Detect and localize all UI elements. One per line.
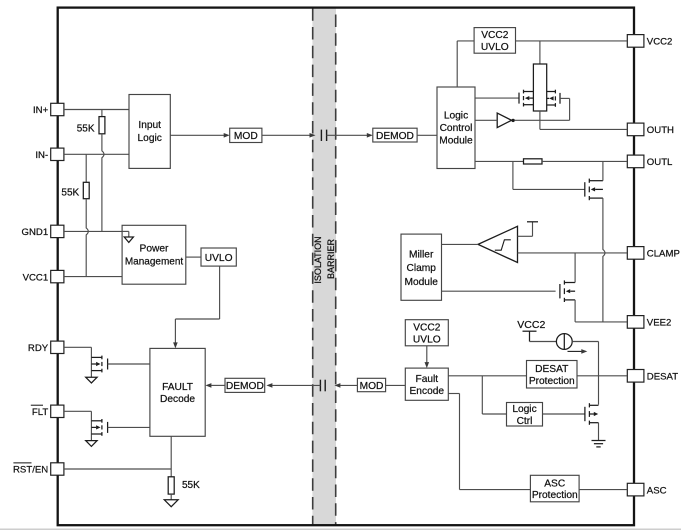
current source direction arrow — [568, 350, 584, 352]
wire VCC2 UVLO to Logic Control Module — [457, 40, 474, 42]
wire IN- to Input Logic — [64, 153, 129, 155]
wire Q5 source to ground — [598, 423, 600, 441]
pin IN+ — [51, 103, 64, 115]
svg-text:Input: Input — [138, 120, 161, 131]
svg-text:55K: 55K — [77, 124, 95, 135]
svg-text:DESAT: DESAT — [535, 364, 568, 375]
ground G3 — [164, 500, 178, 507]
junction dot buffer output — [511, 119, 514, 122]
svg-text:MOD: MOD — [360, 381, 384, 392]
transistor Q1 gate wire — [475, 97, 519, 99]
wire R3 to ground — [170, 494, 172, 500]
resistor R3 55K — [168, 477, 174, 494]
wire FAULT Decode bottom to R3 — [170, 436, 172, 477]
wire Fault Encode to ASC Protection — [448, 393, 459, 395]
wire Q6 gate to FAULT Decode — [108, 363, 150, 365]
wire current source to DESAT transistor drain — [572, 341, 598, 343]
wire Q4 drain to CLAMP line — [574, 253, 576, 283]
pin RDY — [51, 341, 64, 353]
wire DEMOD2 to FAULT Decode — [211, 384, 225, 386]
wire Input Logic to MOD — [170, 134, 224, 136]
arrow at isolation barrier top path — [310, 133, 316, 138]
pin CLAMP — [627, 247, 644, 260]
svg-text:BARRIER: BARRIER — [326, 238, 336, 279]
pin OUTL — [627, 155, 644, 168]
svg-text:ASC: ASC — [647, 485, 667, 496]
wire Miller Clamp Module to Q4 gate — [442, 290, 556, 292]
block UVLO — [201, 248, 236, 266]
page artifact line bottom — [0, 528, 681, 530]
block DEMOD — [373, 128, 417, 142]
svg-text:VCC2: VCC2 — [481, 30, 509, 41]
wire Power Management to UVLO — [186, 256, 201, 258]
wire ASC Protection to pin ASC — [579, 489, 627, 491]
transistor Q2 gate wire — [560, 97, 570, 99]
transistor Q5 — [584, 407, 586, 421]
transistor Q6 — [107, 359, 109, 370]
svg-text:ISOLATION: ISOLATION — [313, 236, 323, 283]
wire schmitt output to Miller Clamp Module — [442, 243, 479, 245]
block Fault Encode — [405, 368, 448, 400]
svg-text:Module: Module — [439, 135, 473, 146]
svg-text:Logic: Logic — [512, 404, 536, 415]
wire Q3 drain to OUTL line — [602, 161, 604, 180]
pin ASC — [627, 483, 644, 496]
block DEMOD2 — [225, 378, 265, 392]
resistor R1 55K — [99, 117, 105, 134]
svg-text:OUTL: OUTL — [647, 157, 673, 168]
svg-text:VCC2: VCC2 — [647, 37, 673, 48]
transistor Q4 — [559, 284, 561, 298]
arrow into Fault Encode top — [425, 362, 430, 368]
ground symbol inside Power Management — [122, 230, 129, 232]
svg-text:OUTH: OUTH — [647, 125, 674, 136]
svg-text:ASC: ASC — [544, 478, 565, 489]
resistor R4 on OUTL line — [524, 159, 543, 164]
pin IN- — [51, 148, 64, 160]
isolation barrier right dashed line — [335, 15, 337, 525]
resistor R1 lead top — [101, 110, 103, 117]
pin VCC2 — [627, 35, 644, 48]
wire capacitor 2 to DEMOD2 — [272, 384, 320, 386]
wire Q4 source to VEE2 line — [574, 300, 576, 322]
wire R2 to VCC1 with jump over GND1 — [86, 199, 88, 277]
block Power Management — [122, 225, 186, 284]
svg-text:CLAMP: CLAMP — [647, 249, 680, 260]
resistor R2 lead top — [85, 154, 87, 182]
svg-text:VCC2: VCC2 — [517, 319, 545, 331]
block VCC2 UVLO top — [474, 28, 515, 54]
wire Q3 source to VEE2 with jump over CLAMP — [603, 198, 605, 322]
block Logic Ctrl — [507, 403, 543, 427]
wire buffer output to Q2 gate — [515, 119, 570, 121]
wire CLAMP line — [518, 252, 628, 254]
wire output stage to OUTH line — [539, 111, 541, 129]
isolation barrier left dashed line — [312, 8, 314, 525]
wire RDY pin to Q6 — [64, 346, 92, 348]
arrow at isolation barrier bottom path — [334, 383, 340, 388]
wire IN+ to Input Logic — [64, 109, 129, 111]
pin OUTH — [627, 123, 644, 136]
pin GND1 — [51, 225, 64, 237]
arrow into DEMOD2 — [266, 383, 272, 388]
isolation barrier label — [313, 236, 336, 283]
wire VCC2 tap to current source — [530, 341, 557, 343]
output stage body — [533, 64, 546, 111]
block ASC Protection — [530, 475, 579, 502]
wire Q7 gate to FAULT Decode — [108, 426, 150, 428]
block VCC2 UVLO lower — [405, 320, 448, 346]
isolation barrier band — [312, 8, 336, 525]
wire GND1 to Power Management — [64, 230, 129, 232]
svg-text:UVLO: UVLO — [413, 334, 441, 345]
svg-text:UVLO: UVLO — [205, 253, 233, 264]
wire branch to Logic Ctrl — [481, 376, 483, 414]
svg-text:55K: 55K — [61, 188, 79, 199]
svg-text:Decode: Decode — [160, 394, 195, 405]
wire FLT pin to Q7 — [64, 410, 92, 412]
svg-text:Miller: Miller — [409, 250, 434, 261]
ground G1 — [86, 377, 97, 383]
svg-text:DESAT: DESAT — [647, 372, 678, 383]
ground G4 — [592, 440, 606, 442]
wire VEE2 line to pin VEE2 — [575, 321, 627, 323]
svg-text:Module: Module — [404, 277, 438, 288]
pin RST/EN — [51, 463, 64, 475]
svg-text:Protection: Protection — [529, 376, 575, 387]
svg-text:Control: Control — [440, 123, 473, 134]
wire Fault Encode to MOD2 — [386, 384, 406, 386]
svg-text:IN-: IN- — [35, 150, 48, 161]
block DESAT Protection — [527, 361, 578, 389]
svg-text:Logic: Logic — [138, 133, 162, 144]
wire MOD to isolation capacitor — [262, 134, 310, 136]
svg-text:VEE2: VEE2 — [647, 318, 672, 329]
svg-text:IN+: IN+ — [33, 105, 49, 116]
pin FLT — [51, 405, 64, 417]
arrow into DEMOD — [367, 133, 373, 138]
power tap VCC2 — [523, 330, 537, 332]
wire OUTL line down to Q3 gate — [512, 161, 514, 189]
wire VCC2 rail down to output stage — [539, 41, 541, 64]
arrow into FAULT Decode top — [173, 342, 178, 348]
wire Fault Encode to DESAT Protection — [448, 375, 526, 377]
block MOD — [230, 128, 262, 142]
resistor R2 55K — [83, 182, 89, 198]
pin VCC1 — [51, 270, 64, 282]
svg-text:UVLO: UVLO — [481, 42, 509, 53]
terminal T above schmitt — [518, 235, 533, 237]
block FAULT Decode — [150, 348, 205, 436]
wire OUTH line to pin OUTH — [540, 128, 627, 130]
block MOD2 — [357, 378, 385, 391]
transistor Q7 — [107, 422, 109, 433]
transistor Q3 — [584, 182, 586, 196]
current source I1 — [556, 334, 572, 350]
schmitt trigger U2 — [478, 226, 518, 262]
wire capacitor to DEMOD — [327, 134, 368, 136]
wire OUTL line left segment — [475, 160, 524, 162]
svg-text:FLT: FLT — [32, 407, 48, 418]
svg-text:Fault: Fault — [415, 374, 438, 385]
svg-text:DEMOD: DEMOD — [226, 381, 264, 392]
transistor Q1 — [518, 93, 520, 104]
block Miller Clamp Module — [401, 234, 442, 300]
wire VCC1 to Power Management — [64, 276, 122, 278]
capacitor C2 isolation — [319, 380, 321, 392]
svg-text:MOD: MOD — [234, 131, 258, 142]
svg-text:Clamp: Clamp — [406, 263, 436, 274]
wire OUTL line to pin OUTL — [542, 160, 627, 162]
svg-text:VCC2: VCC2 — [413, 323, 441, 334]
svg-text:RDY: RDY — [28, 343, 49, 354]
wire DESAT Protection to pin DESAT — [577, 375, 627, 377]
buffer U1 — [497, 113, 511, 128]
svg-text:Ctrl: Ctrl — [517, 416, 533, 427]
svg-text:DEMOD: DEMOD — [376, 131, 414, 142]
wire MOD2 to isolation capacitor 2 — [340, 384, 357, 386]
svg-text:VCC1: VCC1 — [23, 272, 49, 283]
transistor Q2 — [547, 90, 560, 107]
block Logic Control Module — [437, 87, 475, 169]
pin DESAT — [627, 370, 644, 383]
arrow into MOD — [224, 133, 230, 138]
svg-text:GND1: GND1 — [22, 227, 49, 238]
wire UVLO to FAULT Decode — [219, 266, 221, 319]
svg-text:55K: 55K — [182, 480, 200, 491]
wire VCC2 rail to pin VCC2 — [516, 40, 628, 42]
wire Logic Control Module to buffer — [475, 119, 497, 121]
wire RST/EN to FAULT Decode pulldown — [64, 468, 171, 470]
block Input Logic — [129, 95, 170, 169]
svg-text:Encode: Encode — [410, 386, 445, 397]
ground G2 — [86, 441, 97, 447]
svg-text:Management: Management — [125, 257, 184, 268]
wire VCC2 UVLO to Fault Encode — [426, 346, 428, 363]
wire R1 to GND1 with jump over IN- — [102, 134, 104, 232]
svg-text:Protection: Protection — [532, 490, 578, 501]
wire DEMOD to Logic Control Module — [417, 134, 437, 136]
pin VEE2 — [627, 316, 644, 329]
svg-text:Logic: Logic — [444, 110, 468, 121]
svg-text:RST/EN: RST/EN — [13, 465, 48, 476]
svg-text:FAULT: FAULT — [162, 382, 193, 393]
svg-text:Power: Power — [140, 244, 169, 255]
arrow into FAULT Decode — [205, 383, 211, 388]
capacitor C1 isolation — [320, 130, 322, 141]
wire Logic Ctrl to Q5 gate — [543, 413, 585, 415]
